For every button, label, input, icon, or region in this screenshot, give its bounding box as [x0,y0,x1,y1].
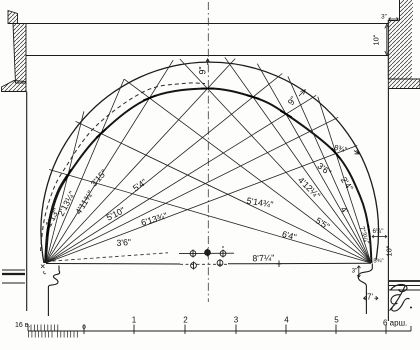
svg-text:4': 4' [338,205,350,216]
vershok comb ticks [29,325,78,338]
tick mark P6 [280,111,291,117]
svg-text:5'4": 5'4" [131,177,149,194]
dashed construction arc [41,83,206,251]
svg-text:5'14¾": 5'14¾" [246,196,274,210]
tick mark near right springing [368,225,370,238]
tick mark P3 [143,96,155,101]
svg-text:4'12¼": 4'12¼" [296,175,322,201]
dashed chord 3'6" [46,253,168,262]
svg-text:3'6": 3'6" [116,237,131,248]
dimension 6 1/4" near right springing [372,235,387,238]
scale numerals [15,316,407,332]
tick mark P7 [332,148,340,158]
chord R5 [225,57,371,263]
svg-text:3": 3" [352,268,358,275]
svg-text:5'10": 5'10" [105,205,127,223]
svg-text:10": 10" [385,245,394,256]
chord L7 [46,146,357,264]
chord R7 [318,97,371,263]
svg-text:4'11¾": 4'11¾" [73,189,95,216]
svg-text:1: 1 [132,316,137,325]
right wall top block [400,0,414,21]
chord R6 [257,64,371,263]
svg-text:7'3¼": 7'3¼" [357,225,371,246]
right fan chords [49,57,371,263]
anchor circle A2 (filled) [205,250,211,256]
svg-text:8¾": 8¾" [333,143,348,155]
chord R6b [288,76,371,263]
svg-text:8'7¼": 8'7¼" [252,253,274,264]
dimension 10" right wall upper [385,24,389,55]
left cornice main band [13,24,26,84]
svg-text:16 в.: 16 в. [15,322,30,329]
svg-text:5'5": 5'5" [314,215,332,231]
survey circles [179,246,234,270]
right floor lines [389,281,420,290]
arrow for 9" crown [206,59,209,65]
left pier face [26,92,28,312]
left floor lines [2,270,25,283]
svg-text:5: 5 [334,316,339,325]
svg-text:2'4": 2'4" [339,175,355,193]
svg-text:6 арш.: 6 арш. [383,319,407,328]
svg-text:4: 4 [284,316,289,325]
chord L4 [46,59,235,263]
left fan chords [46,59,357,263]
tick mark P4 crown [201,88,214,90]
svg-text:5¾": 5¾" [373,259,383,265]
right wall face band [388,21,412,80]
upper wall line [18,23,389,25]
signature glyph [390,284,413,311]
svg-text:0: 0 [82,324,86,331]
svg-text:9": 9" [286,95,299,107]
chord L3 [46,60,173,263]
chord R1 [49,170,371,264]
tick mark P5 [247,95,260,99]
chord R3 [124,79,371,263]
chord L6b [46,117,338,263]
centerline (dash-dot) [207,2,209,302]
anchor circle A1 [190,251,196,257]
left cornice bottom flange [2,81,27,92]
arc point ticks [47,89,370,238]
svg-text:2'13¼": 2'13¼" [56,189,77,217]
svg-text:3'6": 3'6" [316,161,334,178]
chord R4 [180,59,371,263]
impost moulding left [48,266,59,317]
outer arc [41,62,379,263]
tick mark P2 [96,129,106,138]
svg-text:10": 10" [372,34,381,45]
right wall lower face [387,89,389,322]
anchor circle A5 [217,260,223,266]
tick mark P1 [65,169,71,180]
arrow for 8 3/4" [354,150,359,154]
svg-text:9": 9" [198,66,208,74]
measurement labels [43,14,393,302]
small x at left springing [41,265,45,269]
line through anchor circles [179,252,234,254]
svg-text:3'15": 3'15" [89,167,109,188]
svg-text:3: 3 [234,316,239,325]
springing line [46,262,371,265]
dimension 7" bottom right [364,296,379,300]
tick on springing line [277,261,282,268]
chord L2 [46,79,124,263]
chord R2 [76,121,372,263]
chord L1 [46,111,84,263]
chord L6 [46,95,316,263]
svg-text:6¼": 6¼" [373,228,384,235]
svg-text:3": 3" [381,14,387,21]
svg-text:6'13¾": 6'13¾" [140,210,169,227]
lower wall line [26,55,388,57]
dimension 3" below right springing [357,266,360,277]
dimension 3" top step [389,17,399,20]
anchor circle A4 [191,263,197,269]
svg-text:7': 7' [367,293,373,302]
svg-text:2: 2 [183,316,188,325]
svg-text:6'4": 6'4" [281,229,298,242]
inner arc (intrados) [46,88,372,263]
tick mark near left springing [47,224,49,237]
scale bar [28,330,411,332]
impost moulding right [358,264,372,315]
inner arc thick lower-left reinforcement [46,175,69,263]
arrow for 9" mid [299,90,305,96]
anchor circle A3 [220,251,226,257]
chord L5 [46,74,282,264]
left cornice top flange [8,11,18,24]
dashed center overlay of springing line [180,263,228,265]
right wall ledge strip [388,79,420,89]
